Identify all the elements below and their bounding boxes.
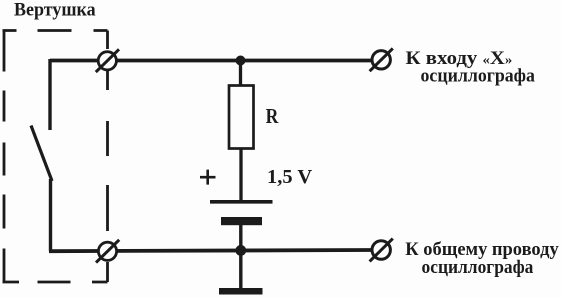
wire junction to resistor — [239, 61, 242, 87]
node junction bottom — [235, 245, 246, 256]
enclosure dashed box top edge — [3, 29, 108, 32]
resistor R — [229, 86, 254, 149]
battery GB negative plate — [221, 217, 262, 225]
terminal XP2 bottom-right — [370, 239, 393, 262]
node junction top — [236, 56, 246, 66]
svg-text:осциллографа: осциллографа — [422, 256, 534, 277]
svg-text:осциллографа: осциллографа — [421, 65, 535, 86]
battery lower plate — [219, 288, 263, 295]
terminal XP1 top-right — [370, 48, 393, 71]
svg-text:R: R — [266, 104, 279, 128]
battery GB positive plate — [210, 200, 273, 204]
enclosure dashed box left edge — [3, 31, 6, 283]
wire battery to bottom rail — [239, 225, 242, 289]
svg-text:1,5 V: 1,5 V — [267, 167, 313, 188]
switch S1 blade — [31, 126, 52, 182]
svg-text:Вертушка: Вертушка — [14, 0, 96, 21]
battery plus label — [200, 170, 216, 185]
terminal XS2 bottom-left — [96, 240, 119, 263]
wire bottom rail — [49, 250, 371, 251]
enclosure dashed box bottom edge — [3, 281, 108, 284]
terminal XS1 top-left — [96, 49, 119, 72]
wire top: from switch corner to X terminal — [50, 59, 372, 63]
enclosure dashed box right edge — [106, 31, 109, 283]
wire resistor to battery — [239, 149, 242, 202]
wire switch bottom — [49, 179, 52, 251]
wire switch fixed contact — [48, 59, 51, 130]
